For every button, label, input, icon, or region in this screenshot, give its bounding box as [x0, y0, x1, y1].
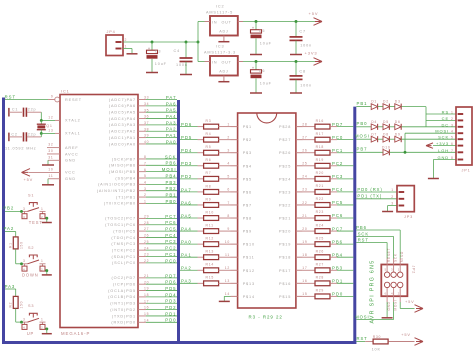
svg-text:20: 20 — [144, 280, 149, 284]
capacitor C8 100n — [290, 62, 313, 93]
svg-text:R12: R12 — [206, 237, 214, 241]
svg-text:P$21: P$21 — [279, 217, 291, 221]
switch S1 TEST — [22, 193, 46, 225]
svg-text:3: 3 — [391, 202, 394, 206]
ground at JP2 pin6 — [382, 317, 393, 319]
svg-text:R13: R13 — [206, 250, 214, 254]
svg-text:P$13: P$13 — [243, 282, 255, 286]
svg-text:R15: R15 — [206, 276, 214, 280]
svg-text:R19: R19 — [316, 158, 324, 162]
svg-text:5: 5 — [144, 174, 147, 178]
pin (TDO)PC4 IC1 pin 26 to bus net PC4 — [111, 233, 177, 240]
svg-text:(TCK)PC2: (TCK)PC2 — [112, 248, 136, 252]
wire RST from bus to R30 — [356, 336, 367, 342]
svg-text:8: 8 — [144, 155, 147, 159]
svg-text:R25: R25 — [316, 236, 324, 240]
wire D3 to JP1 RS — [401, 107, 456, 127]
svg-text:(T1)PB1: (T1)PB1 — [116, 195, 136, 199]
svg-text:27: 27 — [302, 135, 307, 139]
svg-text:JP1: JP1 — [462, 169, 471, 173]
pin (TOSC1)PC6 IC1 pin 28 to bus net PC6 — [105, 220, 177, 227]
pin (TMS)PC3 IC1 pin 25 to bus net PC3 — [111, 239, 177, 246]
pin (ADC4)PA4 IC1 pin 36 to bus net PA4 — [109, 114, 177, 121]
svg-text:PB6: PB6 — [166, 161, 177, 166]
resistor R16 22 P$28 to net PD7 — [279, 119, 353, 129]
connector JP2 AVR SPI PRG 6N5 — [369, 248, 415, 324]
pin (TXD)PD1 IC1 pin 15 to bus net PD1 — [112, 311, 177, 318]
diode D1 — [371, 100, 383, 110]
svg-text:PC1: PC1 — [332, 148, 343, 153]
svg-text:(T0/XCK)PB0: (T0/XCK)PB0 — [104, 202, 136, 206]
junction at C7 — [295, 20, 298, 23]
capacitor C6 10uF — [251, 62, 272, 93]
svg-text:R6: R6 — [206, 158, 212, 162]
svg-text:PD4: PD4 — [181, 148, 192, 153]
svg-text:1: 1 — [41, 207, 44, 211]
svg-text:PD1 (TX): PD1 (TX) — [357, 194, 382, 199]
svg-text:SCK: SCK — [358, 232, 369, 237]
svg-text:PC3: PC3 — [165, 239, 176, 244]
pin (SS)PB4 IC1 pin 5 to bus net PB4 — [115, 173, 177, 180]
svg-text:2: 2 — [227, 135, 230, 139]
svg-text:ADJ: ADJ — [219, 29, 228, 33]
svg-text:PB1: PB1 — [166, 192, 177, 197]
ground below C4 — [180, 74, 192, 76]
wire PB2 from bus to S1 — [3, 206, 21, 212]
pin (SCL)PC0 IC1 pin 22 to bus net PC0 — [112, 258, 177, 265]
svg-text:40: 40 — [144, 140, 149, 144]
pin (MOSI)PB5 IC1 pin 6 to bus net MOSI — [109, 167, 177, 174]
ground at S3 — [42, 333, 52, 335]
wire MOSI from bus to D7-D9 — [355, 134, 371, 140]
wire PB7 from bus to D10 — [356, 147, 383, 153]
connector JP4 — [106, 30, 127, 55]
svg-text:R27: R27 — [316, 262, 324, 266]
resistor R27 22 P$17 to net PB3 — [279, 262, 353, 272]
resistor R6 22 net PD3 to P$4 — [180, 158, 252, 168]
svg-text:(SDA)PC1: (SDA)PC1 — [112, 255, 136, 259]
wire R1 to S2 — [16, 249, 22, 264]
svg-text:PA7: PA7 — [181, 187, 192, 192]
svg-text:6: 6 — [144, 168, 147, 172]
svg-text:150: 150 — [19, 241, 23, 249]
svg-text:PA0: PA0 — [166, 139, 177, 144]
diode D9 — [395, 132, 401, 142]
svg-text:17: 17 — [302, 266, 307, 270]
svg-text:PB0: PB0 — [357, 121, 368, 126]
svg-text:PB2: PB2 — [166, 186, 177, 191]
svg-text:(ADC5)PA5: (ADC5)PA5 — [109, 111, 136, 115]
+5V supply arrow at VCC — [22, 169, 34, 182]
svg-text:100n: 100n — [300, 43, 312, 47]
svg-text:R21: R21 — [316, 184, 324, 188]
svg-text:14: 14 — [225, 292, 230, 296]
junction at D10 branch — [404, 151, 407, 154]
svg-text:1: 1 — [451, 111, 454, 115]
svg-text:10: 10 — [48, 168, 53, 172]
wire S3 to ground — [46, 329, 48, 333]
svg-text:R29: R29 — [316, 289, 324, 293]
bus bottom horizontal — [2, 341, 356, 344]
svg-text:1: 1 — [41, 259, 44, 263]
pin (ICP)PD6 IC1 pin 20 to bus net PD6 — [113, 280, 177, 287]
wire D9 to JP1 SCK — [401, 138, 456, 140]
svg-text:PC7: PC7 — [165, 214, 176, 219]
svg-text:5: 5 — [385, 267, 387, 271]
svg-text:OUT: OUT — [222, 60, 232, 64]
svg-text:D7: D7 — [371, 132, 377, 136]
svg-text:3: 3 — [451, 123, 454, 127]
svg-text:13: 13 — [225, 279, 230, 283]
svg-text:PA3: PA3 — [5, 284, 16, 289]
svg-text:MOSI: MOSI — [355, 314, 369, 319]
wire JP4 pin2 to regulators — [123, 41, 198, 43]
ground below JP1 — [428, 178, 439, 180]
svg-text:DOWN: DOWN — [22, 272, 39, 277]
svg-text:P$18: P$18 — [279, 256, 291, 260]
svg-text:(AIN0/INT2)PB2: (AIN0/INT2)PB2 — [97, 189, 136, 193]
svg-text:P$27: P$27 — [279, 138, 291, 142]
svg-text:PD7: PD7 — [165, 273, 176, 278]
junction at regulator feed — [197, 41, 200, 44]
junction XTAL2 node — [40, 119, 43, 122]
svg-text:(ICP)PD6: (ICP)PD6 — [113, 283, 136, 287]
svg-text:1: 1 — [144, 200, 147, 204]
svg-text:VCC: VCC — [65, 171, 76, 175]
svg-text:P$23: P$23 — [279, 190, 291, 194]
svg-text:(OC1A)PD5: (OC1A)PD5 — [108, 289, 136, 293]
svg-text:R24: R24 — [316, 223, 324, 227]
svg-text:1: 1 — [391, 188, 394, 192]
svg-text:10uF: 10uF — [260, 42, 272, 46]
capacitor C4 100n — [174, 42, 193, 74]
svg-text:PA0: PA0 — [181, 240, 192, 245]
switch S2 DOWN — [22, 246, 46, 278]
svg-text:UP: UP — [27, 331, 35, 336]
junction at C3 — [151, 41, 154, 44]
capacitor C2 22p — [9, 132, 41, 141]
svg-text:R11: R11 — [206, 223, 214, 227]
svg-text:32: 32 — [48, 143, 53, 147]
svg-text:4: 4 — [144, 180, 147, 184]
svg-text:R10: R10 — [206, 210, 214, 214]
svg-text:P$10: P$10 — [243, 243, 255, 247]
svg-text:PD5: PD5 — [181, 135, 192, 140]
svg-text:C4: C4 — [174, 49, 181, 53]
svg-text:PD0: PD0 — [332, 292, 343, 297]
svg-text:PC6: PC6 — [332, 213, 343, 218]
svg-text:RST: RST — [5, 94, 16, 99]
pin (ADC0)PA0 IC1 pin 40 to bus net PA0 — [109, 139, 177, 146]
svg-text:21: 21 — [302, 214, 307, 218]
svg-text:14: 14 — [144, 318, 149, 322]
svg-text:18: 18 — [144, 293, 149, 297]
ground at P$14 — [219, 300, 230, 302]
svg-text:R7: R7 — [206, 171, 212, 175]
svg-text:R23: R23 — [316, 210, 324, 214]
pin (ADC3)PA3 IC1 pin 37 to bus net PA3 — [109, 120, 177, 127]
svg-text:D8: D8 — [383, 132, 389, 136]
pin (SDA)PC1 IC1 pin 23 to bus net PC1 — [112, 252, 177, 259]
svg-text:SCK: SCK — [438, 135, 449, 140]
pin (T0/XCK)PB0 IC1 pin 1 to bus net PB0 — [104, 199, 177, 206]
pin XTAL2 IC1 pin 12 — [48, 116, 80, 123]
wire +3V3 rail — [243, 61, 315, 63]
resistor R24 22 P$20 to net PC7 — [279, 223, 353, 233]
svg-text:TEST: TEST — [29, 220, 43, 225]
wire C1 to XTAL2 — [41, 112, 55, 120]
wire PD1 (TX) to JP3 pin2 — [356, 194, 397, 199]
svg-text:SCK: SCK — [393, 253, 397, 262]
svg-text:P$14: P$14 — [243, 295, 255, 299]
svg-text:16: 16 — [302, 279, 307, 283]
pin (MISO)PB6 IC1 pin 7 to bus net PB6 — [109, 161, 177, 168]
svg-text:P$2: P$2 — [243, 138, 252, 142]
diode D5 — [383, 120, 395, 130]
svg-text:1: 1 — [398, 267, 400, 271]
svg-text:DC: DC — [441, 122, 449, 127]
svg-text:P$7: P$7 — [243, 203, 252, 207]
pin (ADC2)PA2 IC1 pin 38 to bus net PA2 — [109, 127, 177, 134]
wire PA2 from bus to R1 — [4, 226, 16, 237]
svg-text:8: 8 — [227, 214, 230, 218]
svg-text:S2: S2 — [28, 246, 34, 250]
diode D2 — [383, 100, 395, 110]
connector JP3 — [391, 186, 414, 219]
ground below C5 — [250, 54, 262, 56]
svg-text:22: 22 — [302, 201, 307, 205]
resistor R26 22 P$18 to net PB4 — [279, 249, 353, 259]
svg-text:150: 150 — [19, 301, 23, 309]
svg-text:(ADC1)PA1: (ADC1)PA1 — [109, 136, 136, 140]
svg-text:JP2: JP2 — [412, 266, 416, 275]
svg-text:(SS)PB4: (SS)PB4 — [115, 176, 136, 180]
ground below C7 — [290, 54, 302, 56]
svg-text:2: 2 — [451, 117, 454, 121]
switch S3 UP — [22, 304, 46, 336]
svg-text:P$22: P$22 — [279, 203, 291, 207]
svg-text:+: + — [252, 65, 255, 70]
resistor R22 22 P$22 to net PC5 — [279, 197, 353, 207]
svg-text:CE: CE — [442, 116, 449, 121]
svg-text:+5V: +5V — [24, 177, 34, 182]
svg-text:R1: R1 — [9, 242, 13, 248]
svg-text:PB2: PB2 — [3, 206, 14, 211]
pin (ADC6)PA6 IC1 pin 34 to bus net PA6 — [109, 101, 177, 108]
svg-text:+: + — [148, 46, 151, 51]
svg-text:(RXD)PD0: (RXD)PD0 — [111, 321, 136, 325]
svg-text:P$4: P$4 — [243, 164, 252, 168]
svg-text:MOSI: MOSI — [435, 129, 449, 134]
svg-text:11: 11 — [225, 253, 230, 257]
svg-text:(MISO)PB6: (MISO)PB6 — [109, 164, 136, 168]
svg-text:PA1: PA1 — [166, 133, 177, 138]
svg-text:R22: R22 — [316, 197, 324, 201]
svg-text:2: 2 — [41, 267, 43, 271]
svg-text:PD0: PD0 — [165, 318, 176, 323]
svg-text:3: 3 — [23, 318, 26, 322]
wire regulator input vertical — [198, 22, 205, 62]
diode D7 — [371, 132, 383, 142]
junction S3 pin2 — [45, 327, 48, 330]
wire S1 to ground — [46, 218, 48, 222]
svg-text:(ADC0)PA0: (ADC0)PA0 — [109, 142, 136, 146]
svg-text:+5V: +5V — [401, 332, 411, 337]
svg-text:(TDO)PC4: (TDO)PC4 — [111, 236, 136, 240]
svg-text:3: 3 — [227, 149, 230, 153]
svg-text:P$26: P$26 — [279, 151, 291, 155]
junction S1 pin3 — [20, 210, 23, 213]
bus GND/power left vertical — [2, 98, 5, 345]
svg-text:PD1: PD1 — [165, 311, 176, 316]
svg-text:(ADC6)PA6: (ADC6)PA6 — [109, 104, 136, 108]
svg-text:(ADC7)PA7: (ADC7)PA7 — [109, 98, 136, 102]
svg-text:PC3: PC3 — [332, 174, 343, 179]
svg-text:22p: 22p — [28, 108, 37, 112]
junction S3 pin3 — [20, 321, 23, 324]
svg-text:P$5: P$5 — [243, 177, 252, 181]
connector JP1 — [456, 107, 472, 173]
resistor R17 22 P$27 to net PC0 — [279, 132, 353, 142]
svg-text:37: 37 — [144, 121, 149, 125]
svg-text:25: 25 — [144, 240, 149, 244]
svg-text:PA4: PA4 — [166, 114, 177, 119]
svg-text:P$12: P$12 — [243, 269, 255, 273]
svg-text:28: 28 — [144, 221, 149, 225]
svg-text:R3: R3 — [206, 119, 212, 123]
svg-text:PB6: PB6 — [356, 225, 367, 230]
wire JP2 pin2 to +5V — [400, 302, 414, 309]
svg-text:PD7: PD7 — [332, 122, 343, 127]
svg-text:P$9: P$9 — [243, 230, 252, 234]
resistor R1 150 — [9, 237, 24, 249]
svg-text:AMS1117-3.3: AMS1117-3.3 — [204, 50, 236, 54]
svg-text:C7: C7 — [299, 30, 306, 34]
svg-text:R5: R5 — [206, 145, 212, 149]
svg-text:13: 13 — [48, 129, 53, 133]
svg-text:(TOSC1)PC6: (TOSC1)PC6 — [105, 223, 136, 227]
svg-text:C6: C6 — [259, 69, 266, 73]
pin GND IC1 pin 11 — [48, 174, 76, 184]
bus middle vertical (MCU port bus) — [177, 100, 180, 344]
svg-text:PC1: PC1 — [165, 252, 176, 257]
svg-text:IC2: IC2 — [216, 5, 224, 9]
resistor R12 22 net PA0 to P$10 — [180, 237, 255, 247]
+5V supply arrow at R30 — [401, 332, 423, 345]
svg-text:PA5: PA5 — [181, 213, 192, 218]
svg-text:PC6: PC6 — [165, 220, 176, 225]
svg-text:100n: 100n — [176, 63, 188, 67]
wire PA3 from bus to R2 — [5, 284, 16, 297]
svg-text:PC2: PC2 — [332, 161, 343, 166]
pin (INT0)PD2 IC1 pin 16 to bus net PD2 — [110, 305, 177, 312]
svg-text:29: 29 — [144, 215, 149, 219]
svg-text:PD6: PD6 — [181, 122, 192, 127]
svg-text:34: 34 — [144, 102, 149, 106]
svg-text:23: 23 — [302, 188, 307, 192]
svg-text:10K: 10K — [372, 347, 381, 351]
svg-text:RESET: RESET — [387, 248, 391, 262]
svg-text:AVCC: AVCC — [65, 152, 79, 156]
svg-text:5: 5 — [227, 175, 230, 179]
svg-text:PC7: PC7 — [332, 226, 343, 231]
svg-text:4: 4 — [227, 162, 230, 166]
svg-text:R18: R18 — [316, 145, 324, 149]
svg-text:19: 19 — [302, 240, 307, 244]
svg-text:4: 4 — [23, 326, 25, 330]
svg-text:C1: C1 — [12, 108, 18, 112]
svg-text:22: 22 — [144, 259, 149, 263]
ground below IC3 ADJ — [218, 81, 229, 83]
svg-text:D6: D6 — [395, 120, 401, 124]
svg-text:IC3: IC3 — [216, 45, 224, 49]
svg-text:RESET: RESET — [65, 98, 82, 102]
svg-text:JP4: JP4 — [107, 30, 116, 34]
svg-text:AMS1117-5: AMS1117-5 — [206, 10, 233, 14]
resistor R30 10K — [365, 335, 414, 351]
svg-text:1: 1 — [41, 318, 44, 322]
svg-text:PC0: PC0 — [165, 258, 176, 263]
svg-text:R9: R9 — [206, 197, 212, 201]
resistor R29 22 P$15 to net PD0 — [279, 289, 353, 299]
svg-text:2: 2 — [391, 195, 394, 199]
resistor R8 22 net PA7 to P$6 — [180, 184, 252, 194]
svg-text:35: 35 — [144, 108, 149, 112]
+3V3 supply arrow at JP1 — [426, 143, 456, 148]
svg-text:36: 36 — [144, 115, 149, 119]
svg-text:2: 2 — [398, 291, 400, 295]
svg-text:25: 25 — [302, 162, 307, 166]
svg-text:6: 6 — [451, 142, 454, 146]
pin (ADC7)PA7 IC1 pin 33 to bus net PA7 — [109, 95, 177, 102]
svg-text:PC2: PC2 — [165, 246, 176, 251]
svg-text:PD0 (RX): PD0 (RX) — [357, 187, 382, 192]
svg-text:4: 4 — [391, 291, 393, 295]
+3V3 supply arrow top — [305, 51, 323, 66]
svg-text:PB1: PB1 — [357, 101, 368, 106]
wire PB1 from bus to D1-D3 — [356, 101, 371, 107]
svg-text:3: 3 — [391, 267, 393, 271]
svg-text:D1: D1 — [371, 100, 377, 104]
svg-text:(TDI)PC5: (TDI)PC5 — [113, 229, 136, 233]
pin AREF IC1 pin 32 — [47, 143, 79, 150]
junction XTAL1 node — [40, 132, 43, 135]
connector U$1 28-pin body — [238, 113, 296, 320]
svg-text:R28: R28 — [316, 276, 324, 280]
svg-text:P$1: P$1 — [243, 125, 252, 129]
svg-text:RST: RST — [357, 336, 368, 341]
diode D8 — [383, 132, 395, 142]
svg-text:LGH: LGH — [438, 148, 449, 153]
svg-text:PC4: PC4 — [165, 233, 176, 238]
svg-text:PC4: PC4 — [332, 187, 343, 192]
pin (AIN0/INT2)PB2 IC1 pin 3 to bus net PB2 — [97, 186, 177, 193]
ground below JP4 — [127, 53, 138, 55]
svg-text:26: 26 — [302, 149, 307, 153]
svg-text:6: 6 — [385, 291, 387, 295]
svg-text:26: 26 — [144, 234, 149, 238]
svg-text:GND: GND — [437, 155, 449, 160]
ground below C6 — [250, 92, 262, 94]
ground below IC2 ADJ — [218, 41, 229, 43]
regulator IC3 AMS1117-3.3 — [204, 45, 243, 82]
svg-text:P$28: P$28 — [279, 125, 291, 129]
wire JP3 pin3 to ground — [388, 206, 397, 212]
pin (TCK)PC2 IC1 pin 24 to bus net PC2 — [112, 246, 177, 253]
wire S2 to ground — [46, 271, 48, 275]
pin P$14 ground — [224, 292, 255, 301]
pin (TOSC2)PC7 IC1 pin 29 to bus net PC7 — [105, 214, 177, 221]
